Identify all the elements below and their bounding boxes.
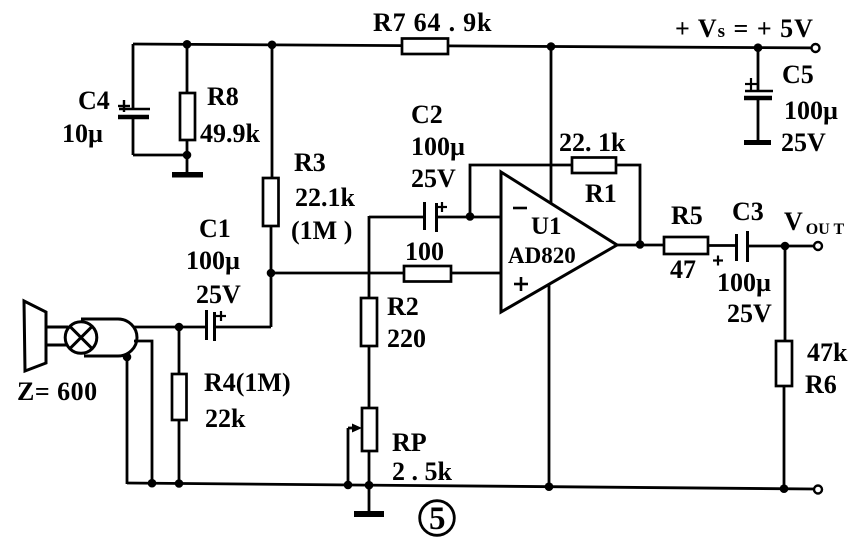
svg-text:R2: R2 [387, 292, 419, 321]
node junction opamp output [636, 240, 645, 249]
node junction Vout [781, 242, 790, 251]
capacitor C5 [744, 48, 838, 157]
node junction top rail opamp supply [547, 42, 556, 51]
svg-text:47: 47 [670, 255, 696, 284]
wire bottom ground rail [127, 483, 814, 489]
resistor R7 [373, 8, 492, 54]
resistor R3 [263, 45, 356, 327]
svg-text:10µ: 10µ [62, 119, 103, 148]
svg-text:22. 1k: 22. 1k [559, 128, 626, 157]
svg-text:100µ: 100µ [717, 268, 771, 297]
svg-text:C5: C5 [782, 60, 814, 89]
node junction R8 bottom [183, 151, 192, 160]
svg-text:R6: R6 [805, 370, 837, 399]
terminal Vout [814, 242, 822, 250]
wire top supply rail left segment [133, 44, 402, 46]
svg-text:25V: 25V [411, 164, 456, 193]
node junction R4 top [175, 323, 184, 332]
wire node A to 100 ohm [271, 272, 404, 275]
node junction top rail R3 [268, 41, 277, 50]
wire opamp output [617, 244, 664, 247]
node junction RP wiper on rail [344, 481, 353, 490]
svg-text:100µ: 100µ [186, 246, 240, 275]
svg-text:C1: C1 [199, 214, 231, 243]
svg-text:25V: 25V [727, 299, 772, 328]
svg-text:R3: R3 [294, 148, 326, 177]
wire mic lower lead [134, 341, 152, 483]
svg-text:R8: R8 [207, 82, 239, 111]
resistor R8 [180, 44, 261, 172]
figure number 5 [420, 501, 455, 537]
wire opamp V- to ground rail [548, 285, 551, 487]
node junction R6 on rail [780, 484, 789, 493]
svg-text:49.9k: 49.9k [200, 119, 261, 148]
wire mic shell to ground rail [126, 357, 129, 484]
svg-text:100: 100 [405, 237, 444, 266]
node mic shell junction [123, 353, 132, 362]
svg-text:C3: C3 [732, 197, 764, 226]
node junction inverting input [466, 212, 475, 221]
svg-text:22k: 22k [205, 404, 246, 433]
svg-text:2 . 5k: 2 . 5k [392, 457, 453, 486]
capacitor C4 [62, 44, 187, 155]
svg-text:(1M ): (1M ) [291, 216, 352, 245]
resistor 100 [404, 237, 501, 282]
ground under R8 [172, 172, 203, 178]
node junction R4 on rail [175, 479, 184, 488]
wire opamp V+ supply [550, 47, 553, 204]
svg-text:25V: 25V [781, 128, 826, 157]
capacitor C1 [186, 214, 271, 341]
svg-text:22.1k: 22.1k [295, 183, 356, 212]
svg-text:5: 5 [429, 501, 446, 537]
svg-text:R1: R1 [585, 179, 617, 208]
svg-text:C4: C4 [78, 86, 110, 115]
potentiometer RP [348, 408, 453, 486]
svg-text:25V: 25V [196, 280, 241, 309]
svg-text:C2: C2 [411, 100, 443, 129]
resistor R1 feedback [470, 128, 640, 244]
terminal bottom right [814, 486, 822, 494]
svg-text:100µ: 100µ [784, 96, 838, 125]
node junction mic lower on rail [148, 479, 157, 488]
svg-text:U1: U1 [531, 213, 562, 240]
svg-text:R7 64 . 9k: R7 64 . 9k [373, 8, 492, 37]
svg-text:47k: 47k [807, 338, 848, 367]
svg-text:+ Vs = + 5V: + Vs = + 5V [675, 14, 814, 43]
capacitor C3 [713, 197, 814, 328]
wire C2 branch vertical [368, 216, 371, 300]
svg-text:220: 220 [387, 324, 426, 353]
svg-text:R4(1M): R4(1M) [204, 368, 291, 397]
node A junction R3/C1/100 [267, 269, 276, 278]
resistor R5 [664, 201, 736, 284]
resistor R4 [172, 327, 291, 484]
node junction RP bottom on rail [365, 481, 374, 490]
op-amp U1 [501, 172, 617, 312]
svg-text:100µ: 100µ [411, 132, 465, 161]
ground under RP [354, 485, 384, 517]
microphone transducer Z=600 [17, 301, 137, 406]
node junction V- on rail [545, 482, 554, 491]
terminal top right [812, 44, 820, 52]
node junction top rail R8 [183, 40, 192, 49]
node junction top rail C5 [754, 43, 763, 52]
svg-text:Z= 600: Z= 600 [17, 377, 98, 406]
wire mic signal output [133, 326, 206, 329]
svg-text:RP: RP [392, 428, 427, 457]
resistor R6 [776, 246, 848, 489]
wire top supply rail right segment [448, 46, 811, 48]
svg-text:AD820: AD820 [508, 243, 576, 268]
capacitor C2 [369, 100, 501, 232]
resistor R2 [361, 292, 426, 408]
svg-text:R5: R5 [671, 201, 703, 230]
